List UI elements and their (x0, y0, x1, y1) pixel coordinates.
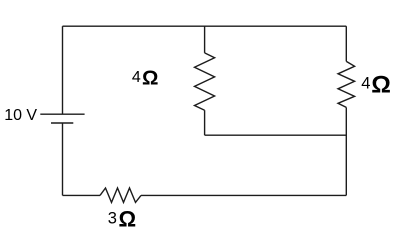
resistor R1 4-ohm middle zigzag (195, 53, 215, 110)
wire right branch top (345, 26, 347, 61)
wire right branch bottom (345, 107, 347, 195)
svg-text:4: 4 (132, 69, 141, 86)
wire left branch lower (62, 123, 64, 195)
wire top (node A to node B) (63, 25, 347, 27)
svg-text:4: 4 (361, 75, 370, 93)
resistor R3 3-ohm zigzag (100, 188, 141, 202)
wire middle branch top (204, 26, 206, 53)
wire middle branch bottom (204, 110, 206, 135)
wire middle horizontal (node C) (205, 134, 347, 136)
wire left branch upper (62, 26, 64, 114)
svg-text:3: 3 (108, 209, 117, 227)
wire bottom left lead (63, 194, 101, 196)
svg-text:Ω: Ω (119, 206, 137, 231)
battery V1 long plate (+) (40, 113, 84, 115)
wire bottom right lead (141, 194, 346, 196)
svg-text:10 V: 10 V (4, 107, 37, 124)
svg-text:Ω: Ω (371, 71, 391, 98)
battery V1 short plate (-) (51, 122, 73, 124)
resistor R2 4-ohm right zigzag (338, 61, 355, 107)
svg-text:Ω: Ω (142, 67, 158, 90)
